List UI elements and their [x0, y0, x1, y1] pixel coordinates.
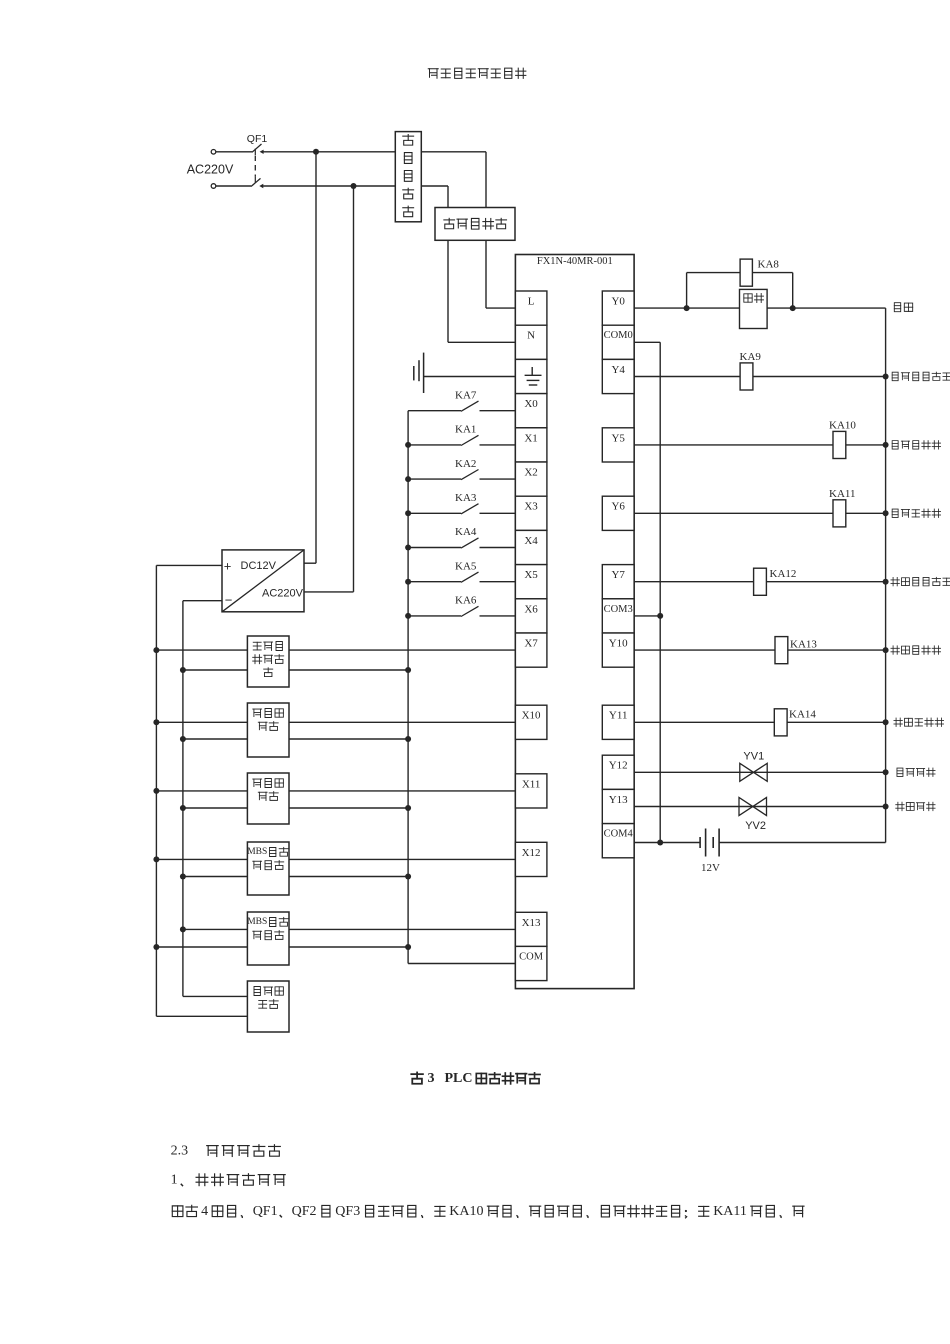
- svg-text:N: N: [527, 330, 535, 342]
- svg-text:KA7: KA7: [455, 389, 477, 401]
- svg-text:Y10: Y10: [609, 638, 628, 650]
- svg-text:Y7: Y7: [611, 569, 625, 581]
- svg-text:KA14: KA14: [789, 709, 816, 721]
- svg-text:X5: X5: [524, 569, 538, 581]
- svg-text:YV1: YV1: [743, 751, 764, 763]
- svg-text:4: 4: [201, 1204, 208, 1219]
- svg-text:AC220V: AC220V: [187, 163, 234, 177]
- svg-text:MBS: MBS: [247, 847, 267, 857]
- svg-text:KA10: KA10: [449, 1204, 483, 1219]
- svg-text:X2: X2: [524, 467, 537, 479]
- svg-text:Y13: Y13: [609, 794, 628, 806]
- svg-text:X13: X13: [522, 917, 541, 929]
- svg-text:1: 1: [171, 1173, 178, 1188]
- svg-text:X12: X12: [522, 847, 541, 859]
- svg-text:3: 3: [428, 1071, 435, 1086]
- svg-text:KA9: KA9: [740, 351, 762, 363]
- svg-text:KA2: KA2: [455, 458, 476, 470]
- svg-text:Y6: Y6: [611, 501, 625, 513]
- svg-text:COM4: COM4: [604, 829, 634, 840]
- svg-text:−: −: [225, 593, 233, 608]
- svg-text:KA5: KA5: [455, 560, 477, 572]
- svg-text:KA6: KA6: [455, 595, 477, 607]
- svg-text:Y11: Y11: [609, 710, 628, 722]
- svg-text:X4: X4: [524, 535, 538, 547]
- svg-text:YV2: YV2: [745, 820, 766, 832]
- svg-text:QF3: QF3: [335, 1204, 360, 1219]
- svg-text:AC220V: AC220V: [262, 588, 304, 600]
- svg-text:12V: 12V: [701, 862, 720, 874]
- svg-text:KA8: KA8: [758, 259, 780, 271]
- svg-text:COM3: COM3: [604, 604, 633, 615]
- svg-text:Y12: Y12: [609, 760, 628, 772]
- svg-text:PLC: PLC: [445, 1071, 473, 1086]
- svg-text:FX1N-40MR-001: FX1N-40MR-001: [537, 256, 613, 267]
- svg-text:X1: X1: [524, 432, 537, 444]
- svg-text:KA10: KA10: [829, 420, 856, 432]
- svg-text:L: L: [528, 296, 535, 308]
- svg-text:QF2: QF2: [292, 1204, 317, 1219]
- svg-text:KA11: KA11: [829, 488, 855, 500]
- svg-text:COM: COM: [519, 951, 544, 962]
- svg-text:QF1: QF1: [247, 133, 268, 145]
- svg-text:X10: X10: [522, 710, 541, 722]
- svg-text:KA13: KA13: [790, 639, 817, 651]
- svg-text:Y5: Y5: [611, 432, 625, 444]
- svg-text:Y4: Y4: [611, 364, 625, 376]
- svg-text:+: +: [224, 559, 232, 574]
- svg-text:QF1: QF1: [253, 1204, 278, 1219]
- svg-text:X11: X11: [522, 778, 541, 790]
- svg-text:KA1: KA1: [455, 424, 476, 436]
- svg-text:X7: X7: [524, 638, 538, 650]
- svg-text:2.3: 2.3: [171, 1144, 189, 1159]
- svg-text:Y0: Y0: [611, 296, 625, 308]
- svg-text:X3: X3: [524, 501, 538, 513]
- svg-text:KA11: KA11: [713, 1204, 747, 1219]
- svg-text:KA12: KA12: [770, 568, 797, 580]
- svg-text:X0: X0: [524, 398, 538, 410]
- svg-text:X6: X6: [524, 603, 538, 615]
- svg-text:KA4: KA4: [455, 526, 477, 538]
- svg-text:DC12V: DC12V: [241, 560, 277, 572]
- svg-text:MBS: MBS: [247, 917, 267, 927]
- svg-text:COM0: COM0: [604, 330, 633, 341]
- svg-text:KA3: KA3: [455, 492, 477, 504]
